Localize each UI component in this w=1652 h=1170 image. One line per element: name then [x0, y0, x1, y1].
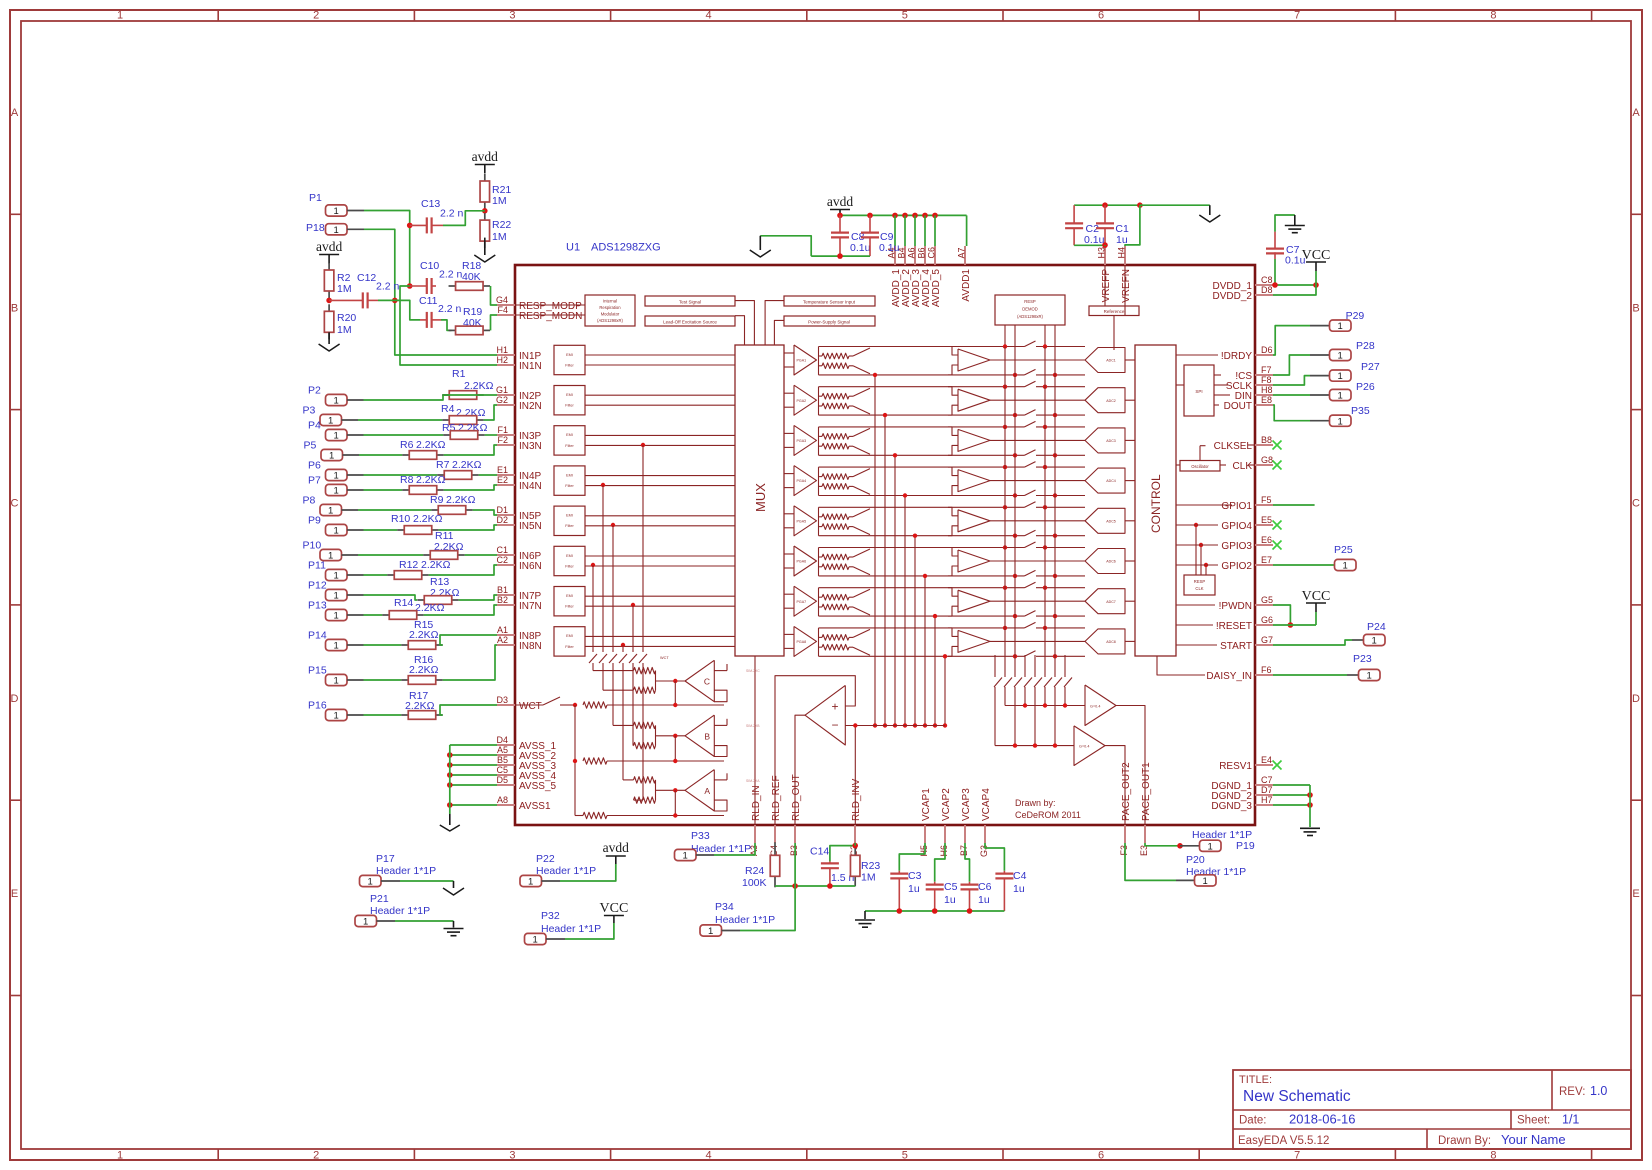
- wire P33 to RLD_IN: [714, 843, 755, 855]
- svg-text:D4: D4: [496, 735, 508, 745]
- pin header P15: [308, 665, 364, 687]
- svg-text:E: E: [1632, 888, 1639, 900]
- svg-text:D6: D6: [1261, 345, 1273, 355]
- chip right pins: [1206, 275, 1273, 812]
- svg-text:CLKSEL: CLKSEL: [1214, 441, 1253, 452]
- svg-text:AVDD1: AVDD1: [961, 269, 972, 302]
- svg-text:C6: C6: [978, 881, 992, 893]
- svg-text:PGA6: PGA6: [797, 560, 807, 564]
- wire R1 to pin: [443, 394, 497, 396]
- resistor R20 1M: [324, 304, 356, 339]
- svg-text:1: 1: [334, 611, 339, 622]
- svg-text:PACE_OUT1: PACE_OUT1: [1141, 762, 1152, 821]
- test signal block: [645, 296, 754, 345]
- pin header P3: [303, 405, 359, 427]
- wire R16 to pin: [443, 645, 497, 680]
- svg-text:U1: U1: [566, 242, 580, 254]
- resistor R5 2.2K: [442, 422, 488, 439]
- ADC1 block: [1085, 348, 1135, 373]
- svg-text:C12: C12: [357, 272, 376, 284]
- svg-text:P34: P34: [715, 901, 734, 913]
- wire P16 to R17: [364, 714, 402, 716]
- wire DGND net to ground: [1273, 785, 1313, 827]
- svg-text:2.2KΩ: 2.2KΩ: [421, 559, 451, 571]
- svg-text:Header 1*1P: Header 1*1P: [370, 905, 430, 917]
- resistor R16 2.2K: [401, 654, 443, 684]
- svg-text:Lead-Off Excitation Source: Lead-Off Excitation Source: [663, 319, 717, 324]
- pin header P5: [304, 440, 360, 462]
- wire R13 to pin: [459, 595, 497, 600]
- svg-text:Drawn By:: Drawn By:: [1438, 1135, 1491, 1147]
- svg-text:D8: D8: [1261, 285, 1273, 295]
- wire P2 to R1: [364, 395, 449, 400]
- svg-text:Filter: Filter: [565, 444, 574, 448]
- wire DVDD net: [1272, 271, 1319, 295]
- resistor R11 2.2K: [423, 530, 465, 559]
- svg-text:avdd: avdd: [603, 840, 629, 855]
- pin header P28: [1330, 340, 1375, 362]
- ground VREF: [1199, 205, 1220, 222]
- gain resistors channel 7: [819, 588, 854, 616]
- reference block: [1089, 265, 1139, 350]
- svg-text:VCAP1: VCAP1: [921, 788, 932, 821]
- pin header P10: [303, 540, 359, 562]
- wire P7 to R8: [364, 489, 403, 491]
- svg-text:D2: D2: [496, 515, 508, 525]
- pin header P21: [355, 893, 430, 928]
- capacitor C11 2.2n: [419, 295, 462, 328]
- capacitor C2 0.1u: [1065, 223, 1104, 246]
- svg-text:E3: E3: [1139, 845, 1149, 856]
- svg-text:1: 1: [117, 10, 123, 22]
- pin header P6: [308, 460, 364, 482]
- svg-text:B6: B6: [917, 247, 927, 258]
- svg-text:1: 1: [334, 206, 339, 217]
- svg-text:G=0.4: G=0.4: [1090, 705, 1100, 709]
- SPI block: [1176, 365, 1230, 416]
- svg-text:1: 1: [334, 431, 339, 442]
- svg-text:1: 1: [683, 851, 688, 862]
- wire P11 to R12: [364, 574, 388, 576]
- svg-text:Reference: Reference: [1104, 309, 1125, 314]
- svg-text:Filter: Filter: [565, 645, 574, 649]
- svg-text:RESV1: RESV1: [1219, 761, 1252, 772]
- svg-text:SIM-2XA: SIM-2XA: [746, 779, 760, 783]
- svg-text:IN1N: IN1N: [519, 361, 542, 372]
- gain resistors channel 3: [819, 427, 854, 455]
- no-connect CLK: [1273, 461, 1282, 470]
- svg-text:E7: E7: [1261, 555, 1272, 565]
- buffer amplifier channel 2: [948, 387, 1085, 415]
- pin header P12: [308, 580, 364, 602]
- svg-text:1M: 1M: [492, 195, 507, 207]
- resistor R15 2.2K: [401, 619, 443, 649]
- svg-text:Power-Supply Signal: Power-Supply Signal: [808, 319, 850, 324]
- svg-text:D: D: [1632, 693, 1640, 705]
- ground VCAP: [855, 920, 875, 927]
- ADC2 block: [1085, 388, 1135, 413]
- svg-text:Header 1*1P: Header 1*1P: [536, 865, 596, 877]
- svg-text:E5: E5: [1261, 515, 1272, 525]
- capacitor C6 1u: [961, 881, 992, 911]
- svg-text:PGA4: PGA4: [797, 479, 807, 483]
- power flag VCC (right middle): [1302, 589, 1331, 612]
- svg-text:P2: P2: [308, 385, 321, 397]
- wire P17 to ground: [400, 880, 454, 882]
- svg-text:D1: D1: [496, 505, 508, 515]
- pin header P33: [675, 830, 752, 862]
- RLD feedback bus verticals: [873, 373, 947, 728]
- svg-text:WCT: WCT: [519, 701, 542, 712]
- wire P13 to R14: [364, 614, 383, 616]
- svg-text:SIM-2XB: SIM-2XB: [746, 724, 760, 728]
- wire P12 to R13: [364, 595, 418, 600]
- svg-text:F5: F5: [1261, 495, 1272, 505]
- svg-text:G3: G3: [979, 845, 989, 857]
- wire VCAP2 to C5: [935, 843, 945, 882]
- svg-text:H6: H6: [939, 845, 949, 857]
- resistor R9 2.2K: [430, 494, 476, 514]
- svg-text:1: 1: [334, 396, 339, 407]
- svg-text:0.1u: 0.1u: [850, 242, 871, 254]
- svg-text:R24: R24: [745, 865, 764, 877]
- svg-text:RESP: RESP: [1024, 299, 1036, 304]
- wire P14 to R15: [364, 644, 402, 646]
- wire VCAP4 to C4: [985, 843, 1004, 871]
- svg-text:P35: P35: [1351, 405, 1370, 417]
- RLD op-amp U1 internal: [746, 656, 945, 825]
- wire P22 to avdd: [560, 864, 616, 881]
- wire avdd rail: [837, 213, 966, 246]
- svg-text:ADC3: ADC3: [1106, 439, 1116, 443]
- pin header P32: [525, 910, 602, 946]
- no-connect GPIO4: [1273, 521, 1282, 530]
- EMI filter block channel 5: [554, 506, 735, 535]
- svg-text:G6: G6: [1261, 615, 1273, 625]
- svg-text:1: 1: [334, 471, 339, 482]
- no-connect RESV1: [1273, 761, 1282, 770]
- svg-text:IN6N: IN6N: [519, 561, 542, 572]
- resistor R24 100K: [742, 842, 780, 889]
- wire START to P24: [1273, 640, 1363, 645]
- wire P6 to R7: [364, 474, 438, 476]
- pin header P14: [308, 630, 364, 652]
- wire PACE_OUT2 to P20: [1125, 843, 1194, 880]
- svg-text:D: D: [11, 693, 19, 705]
- ADC5 block: [1085, 508, 1135, 533]
- buffer amplifier channel 7: [948, 588, 1085, 616]
- gain resistors channel 6: [819, 548, 854, 576]
- svg-text:0.1u: 0.1u: [879, 242, 900, 254]
- svg-text:P6: P6: [308, 460, 321, 472]
- pin header P16: [308, 700, 364, 722]
- capacitor C12 2.2n: [329, 272, 399, 308]
- resistor R2 1M: [324, 263, 351, 298]
- svg-text:Respiration: Respiration: [599, 305, 621, 310]
- svg-text:2: 2: [313, 10, 319, 22]
- resistor R23 1M: [850, 845, 880, 886]
- PACE amplifier 1 (G=0.4): [1085, 685, 1145, 825]
- svg-text:DOUT: DOUT: [1224, 401, 1252, 412]
- PACE signal bus verticals with switches: [994, 347, 1072, 746]
- channel 5 switches: [819, 502, 1086, 538]
- ground DGND: [1300, 828, 1320, 835]
- svg-text:AVDD_5: AVDD_5: [931, 269, 942, 308]
- svg-text:MUX: MUX: [753, 483, 768, 512]
- resistor R18 40K: [449, 260, 491, 290]
- svg-text:1M: 1M: [337, 324, 352, 336]
- svg-text:1: 1: [334, 486, 339, 497]
- svg-text:2.2KΩ: 2.2KΩ: [409, 664, 439, 676]
- svg-text:E1: E1: [497, 465, 508, 475]
- svg-text:Test Signal: Test Signal: [679, 299, 701, 304]
- svg-text:R14: R14: [394, 597, 413, 609]
- WCT amplifier C: [634, 656, 728, 707]
- svg-text:1: 1: [328, 551, 333, 562]
- svg-text:Header 1*1P: Header 1*1P: [541, 923, 601, 935]
- svg-text:IN2N: IN2N: [519, 401, 542, 412]
- resistor R6 2.2K: [400, 439, 446, 459]
- svg-text:8: 8: [1490, 10, 1496, 22]
- control output lines to right pins: [1157, 355, 1255, 675]
- svg-text:C11: C11: [419, 295, 438, 307]
- svg-text:P25: P25: [1334, 544, 1353, 556]
- svg-text:RESP: RESP: [1194, 579, 1206, 584]
- svg-text:SPI: SPI: [1195, 389, 1202, 394]
- oscillator block: [1176, 446, 1255, 471]
- svg-text:A: A: [11, 107, 19, 119]
- svg-text:R12: R12: [399, 559, 418, 571]
- svg-text:2.2 n: 2.2 n: [439, 269, 463, 281]
- node RLD_INV: [852, 843, 858, 849]
- channel 6 switches: [819, 542, 1086, 578]
- PGA4 amplifier: [784, 466, 817, 496]
- svg-text:1: 1: [368, 877, 373, 888]
- pin header P17: [360, 853, 437, 888]
- ADC6 block: [1085, 549, 1135, 574]
- wire R17 to pin: [440, 705, 497, 715]
- svg-text:1: 1: [1203, 876, 1208, 887]
- svg-text:B1: B1: [497, 585, 508, 595]
- svg-text:H8: H8: [1261, 385, 1273, 395]
- chip bottom pins: [749, 762, 1152, 857]
- svg-text:RLD_IN: RLD_IN: [751, 785, 762, 821]
- svg-text:7: 7: [1294, 10, 1300, 22]
- svg-text:1: 1: [708, 926, 713, 937]
- lead-off excitation source block: [645, 316, 745, 345]
- svg-text:ADC6: ADC6: [1106, 560, 1116, 564]
- svg-text:E2: E2: [497, 475, 508, 485]
- svg-text:1: 1: [1338, 416, 1343, 427]
- svg-text:avdd: avdd: [316, 239, 342, 254]
- svg-text:P19: P19: [1236, 840, 1255, 852]
- resistor R4 2.2K: [441, 403, 486, 424]
- pin header P8: [303, 495, 359, 517]
- svg-text:0.1u: 0.1u: [1084, 234, 1105, 246]
- EMI filter block channel 6: [554, 546, 735, 575]
- svg-text:GPIO1: GPIO1: [1221, 501, 1252, 512]
- svg-text:PGA8: PGA8: [797, 640, 807, 644]
- capacitor C3 1u: [890, 870, 921, 911]
- svg-text:100K: 100K: [742, 877, 767, 889]
- buffer amplifier channel 6: [948, 548, 1085, 576]
- svg-text:1: 1: [533, 935, 538, 946]
- wire RLD bottom bus: [775, 883, 855, 889]
- wire GPIO2 to P25: [1273, 564, 1334, 566]
- wire VCAP3 to C6: [965, 843, 970, 882]
- pin header P9: [308, 515, 364, 537]
- svg-text:P5: P5: [304, 440, 317, 452]
- wire PACE_OUT1 to P19: [1145, 843, 1199, 849]
- svg-text:Date:: Date:: [1239, 1115, 1267, 1127]
- svg-text:P23: P23: [1353, 653, 1372, 665]
- svg-text:VCC: VCC: [1302, 589, 1331, 604]
- svg-text:P27: P27: [1361, 361, 1380, 373]
- capacitor C5 1u: [926, 881, 958, 911]
- no-connect CLKSEL: [1273, 441, 1282, 450]
- svg-text:F6: F6: [1261, 665, 1272, 675]
- svg-text:1: 1: [1338, 321, 1343, 332]
- svg-text:EMI: EMI: [566, 554, 573, 558]
- svg-text:IN8N: IN8N: [519, 641, 542, 652]
- svg-text:Drawn by:: Drawn by:: [1015, 798, 1056, 808]
- drawn-by note inside U1: [1015, 798, 1081, 820]
- svg-text:H2: H2: [496, 355, 508, 365]
- svg-text:PGA1: PGA1: [797, 359, 807, 363]
- wire CS to P28: [1273, 355, 1329, 375]
- svg-text:P16: P16: [308, 700, 327, 712]
- power flag avdd (bottom): [603, 840, 629, 864]
- svg-text:P26: P26: [1356, 381, 1375, 393]
- ADC8 block: [1085, 629, 1135, 654]
- pin header P29: [1330, 310, 1365, 332]
- svg-text:Internal: Internal: [603, 299, 617, 304]
- pin header P13: [308, 600, 364, 622]
- EMI filter block channel 7: [554, 587, 735, 616]
- svg-text:P20: P20: [1186, 854, 1205, 866]
- svg-text:1: 1: [1338, 351, 1343, 362]
- channel 2 switches: [819, 381, 1086, 417]
- EMI filter block channel 4: [554, 466, 735, 495]
- wire R14 to pin: [424, 605, 497, 615]
- svg-text:P10: P10: [303, 540, 322, 552]
- wire DAISY_IN to P23: [1273, 674, 1358, 676]
- internal respiration modulator block: [515, 295, 635, 326]
- svg-text:VREFN: VREFN: [1121, 269, 1132, 303]
- svg-text:2: 2: [313, 1150, 319, 1162]
- wire C7 to ground: [1275, 215, 1295, 232]
- ground P17: [443, 881, 464, 895]
- ground C7: [1285, 215, 1305, 233]
- svg-text:P24: P24: [1367, 621, 1386, 633]
- svg-text:AVSS1: AVSS1: [519, 801, 551, 812]
- svg-text:C1: C1: [496, 545, 508, 555]
- wire P18 to IN1P: [364, 229, 497, 355]
- pin header P18: [306, 222, 364, 236]
- svg-text:C4: C4: [1013, 870, 1027, 882]
- svg-text:B: B: [11, 302, 18, 314]
- pin header P4: [308, 420, 364, 442]
- svg-text:2018-06-16: 2018-06-16: [1289, 1112, 1356, 1127]
- svg-text:Header 1*1P: Header 1*1P: [691, 843, 751, 855]
- capacitor C9 0.1u: [861, 215, 900, 256]
- svg-text:VCAP4: VCAP4: [981, 788, 992, 821]
- ground P21: [444, 929, 464, 936]
- svg-text:6: 6: [1098, 1150, 1104, 1162]
- wire PWDN/RESET to VCC: [1273, 605, 1316, 628]
- svg-text:C: C: [704, 677, 710, 687]
- svg-text:ADC4: ADC4: [1106, 479, 1116, 483]
- svg-text:P33: P33: [691, 830, 710, 842]
- svg-text:3: 3: [509, 10, 515, 22]
- svg-text:WCT: WCT: [660, 656, 669, 660]
- svg-text:EMI: EMI: [566, 473, 573, 477]
- svg-text:CONTROL: CONTROL: [1149, 474, 1163, 533]
- resistor R7 2.2K: [436, 459, 482, 479]
- svg-text:G8: G8: [1261, 455, 1273, 465]
- pin header P7: [308, 475, 364, 497]
- svg-text:Filter: Filter: [565, 363, 574, 367]
- svg-text:5: 5: [902, 10, 908, 22]
- svg-text:Filter: Filter: [565, 484, 574, 488]
- svg-text:Oscillator: Oscillator: [1191, 464, 1209, 469]
- svg-text:New Schematic: New Schematic: [1243, 1088, 1351, 1105]
- PGA5 amplifier: [784, 506, 817, 536]
- resistor R13 2.2K: [417, 576, 459, 604]
- wire SCLK to P27: [1273, 376, 1329, 385]
- wire VCAP1 to C3: [899, 843, 925, 871]
- svg-text:1M: 1M: [492, 231, 507, 243]
- gain resistors channel 5: [819, 507, 854, 535]
- svg-text:4: 4: [706, 1150, 712, 1162]
- svg-text:2.2KΩ: 2.2KΩ: [415, 602, 445, 614]
- svg-text:Modulator: Modulator: [601, 312, 620, 317]
- svg-text:CeDeROM 2011: CeDeROM 2011: [1015, 810, 1081, 820]
- svg-text:VCAP3: VCAP3: [961, 788, 972, 821]
- power flag avdd (left): [316, 239, 342, 264]
- PGA3 amplifier: [784, 425, 817, 455]
- capacitor C14 1.5n: [810, 846, 855, 887]
- wire DIN to P26: [1273, 394, 1329, 396]
- pin header P27: [1330, 361, 1380, 382]
- wire VREF top rail: [1074, 202, 1210, 246]
- svg-text:1: 1: [334, 676, 339, 687]
- svg-text:2.2KΩ: 2.2KΩ: [409, 629, 439, 641]
- svg-text:A5: A5: [497, 745, 508, 755]
- svg-text:B8: B8: [1261, 435, 1272, 445]
- pin header P22: [520, 853, 596, 888]
- svg-text:B3: B3: [789, 845, 799, 856]
- svg-text:F7: F7: [1261, 365, 1272, 375]
- svg-text:A6: A6: [907, 247, 917, 258]
- power flag avdd (top): [472, 149, 498, 174]
- svg-text:2.2KΩ: 2.2KΩ: [413, 513, 443, 525]
- WCT input switch: [515, 697, 577, 816]
- svg-text:avdd: avdd: [827, 194, 853, 209]
- svg-text:EMI: EMI: [566, 594, 573, 598]
- capacitor C1 1u: [1096, 205, 1129, 246]
- node R2/R20/C12: [326, 298, 332, 304]
- svg-text:AVSS_5: AVSS_5: [519, 781, 556, 792]
- svg-text:R1: R1: [452, 368, 466, 380]
- svg-text:(ADS1298xR): (ADS1298xR): [597, 318, 623, 323]
- capacitor C10 2.2n: [410, 260, 463, 294]
- svg-text:E: E: [11, 888, 18, 900]
- wire R18 to RESP_MODP: [491, 286, 498, 305]
- svg-text:GPIO4: GPIO4: [1221, 521, 1252, 532]
- svg-text:G4: G4: [496, 295, 508, 305]
- svg-text:1: 1: [334, 571, 339, 582]
